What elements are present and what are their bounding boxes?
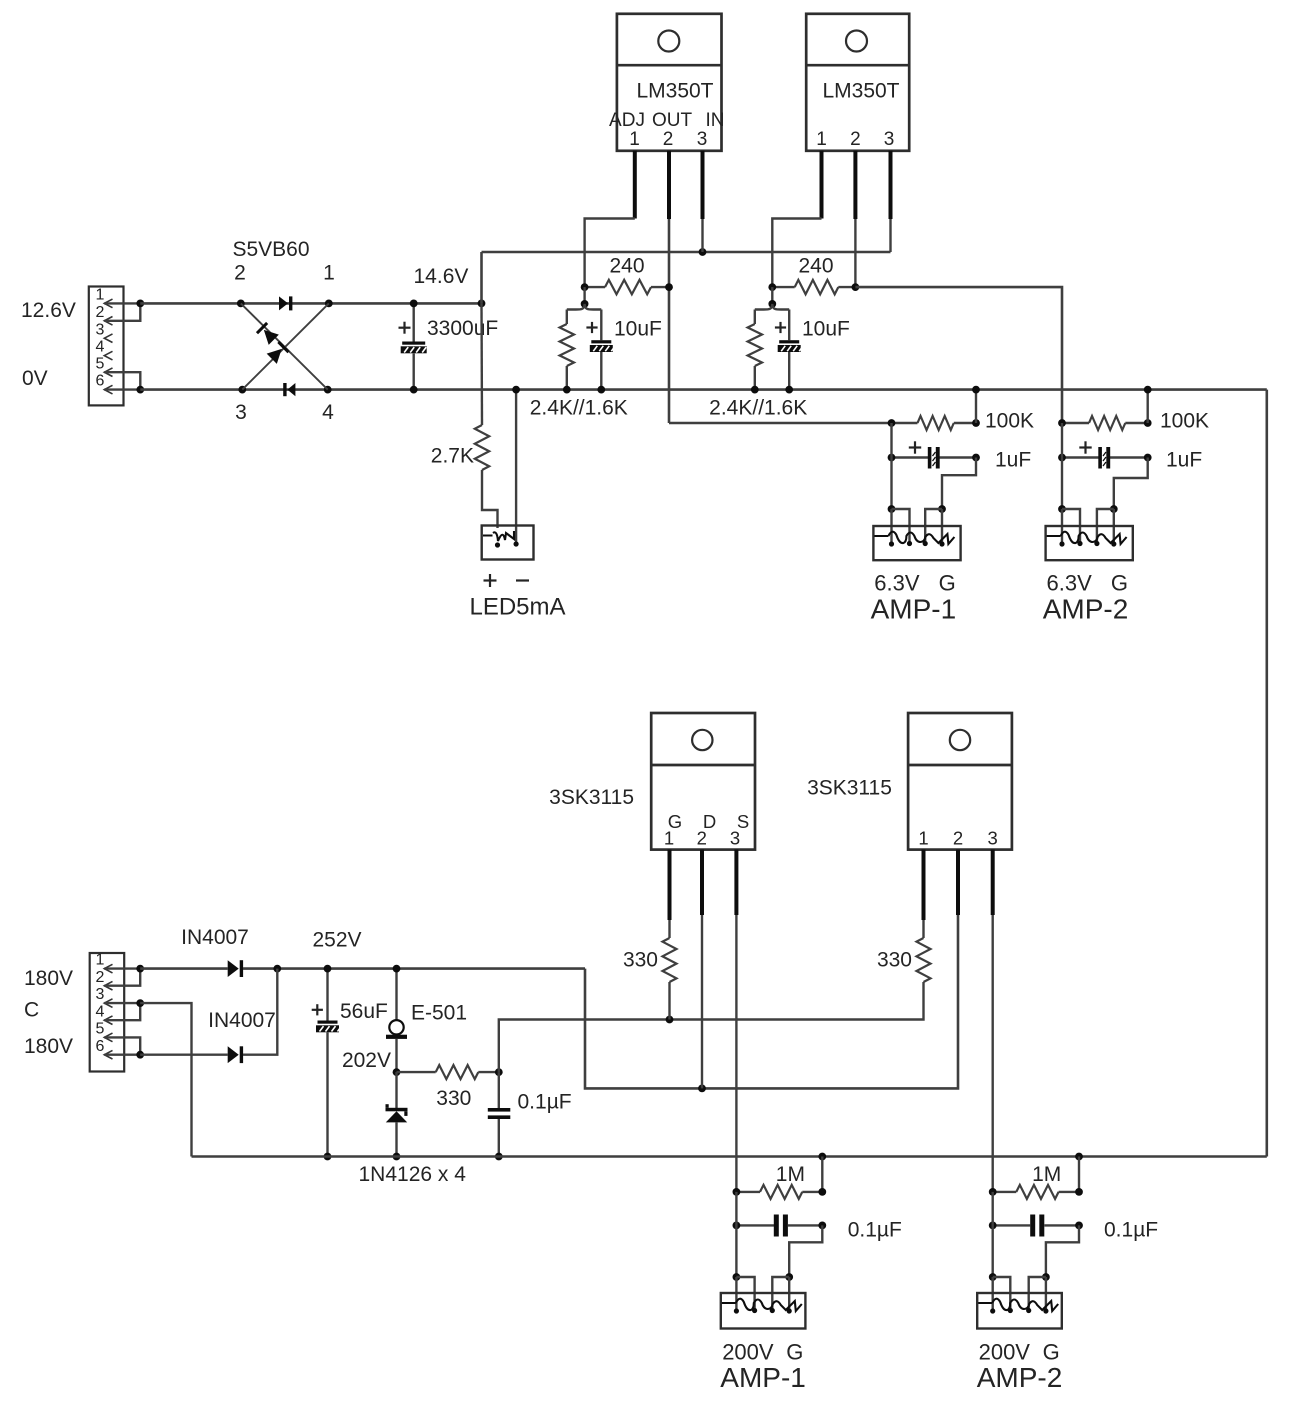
svg-text:3: 3 bbox=[235, 401, 247, 424]
svg-text:IN4007: IN4007 bbox=[181, 926, 249, 949]
wire Q1 drain down bbox=[701, 915, 703, 1088]
node R3 bottom bbox=[563, 386, 571, 394]
svg-text:4: 4 bbox=[96, 339, 105, 356]
svg-text:AMP-1: AMP-1 bbox=[871, 594, 957, 625]
svg-text:G: G bbox=[939, 570, 956, 595]
AMP-2 bias output box bbox=[977, 1293, 1062, 1329]
svg-text:12.6V: 12.6V bbox=[21, 299, 76, 322]
node R5 left bbox=[888, 419, 896, 427]
svg-text:202V: 202V bbox=[342, 1049, 391, 1072]
wire center tap run bbox=[140, 1003, 191, 1156]
resistor R9 330 gate feed bbox=[397, 1065, 499, 1110]
wire pin1 to top rail bbox=[104, 302, 140, 304]
svg-text:LM350T: LM350T bbox=[636, 80, 713, 103]
svg-text:2: 2 bbox=[663, 129, 674, 150]
node AMP-1 6.3V pin bbox=[888, 505, 896, 513]
pin U1-2 OUT bbox=[667, 151, 671, 219]
wire diode2 up to rail bbox=[243, 969, 277, 1055]
svg-text:AMP-2: AMP-2 bbox=[977, 1362, 1063, 1393]
svg-text:1: 1 bbox=[664, 828, 674, 849]
svg-text:E-501: E-501 bbox=[411, 1001, 467, 1024]
bridge node 3 bbox=[235, 386, 247, 424]
svg-text:100K: 100K bbox=[985, 410, 1034, 433]
node R2 left bbox=[768, 283, 776, 291]
wire U1 OUT down bbox=[668, 219, 671, 423]
node C7 right bbox=[818, 1222, 826, 1230]
svg-text:10uF: 10uF bbox=[614, 318, 662, 341]
wire riser 14.6V up to regulator IN feed bbox=[480, 252, 483, 303]
bridge node 4 bbox=[322, 386, 334, 424]
wire AMP-2 G jog bbox=[1114, 458, 1148, 510]
svg-text:3300uF: 3300uF bbox=[427, 317, 498, 340]
node C4 left bbox=[888, 454, 896, 462]
node bracket #2 bbox=[768, 300, 776, 308]
node C2 bottom bbox=[597, 386, 605, 394]
node bracket #1 bbox=[581, 300, 589, 308]
connector CN2 (180V-C-180V transformer input) bbox=[90, 952, 125, 1072]
svg-text:180V: 180V bbox=[24, 967, 73, 990]
pin U1-1 ADJ bbox=[633, 151, 637, 219]
wire U2 IN down to feed bbox=[889, 219, 891, 252]
wire AMP-2 ground tap bbox=[1146, 390, 1148, 423]
node C1 bottom bbox=[410, 386, 418, 394]
resistor R11 330 Q2 gate bbox=[877, 920, 931, 982]
svg-text:3: 3 bbox=[884, 129, 895, 150]
capacitor C1 3300uF bbox=[399, 303, 427, 389]
bridge node 1 bbox=[323, 262, 335, 308]
wire AMP-1 pin entries bbox=[892, 509, 943, 544]
svg-text:OUT: OUT bbox=[652, 110, 693, 131]
svg-text:0.1µF: 0.1µF bbox=[518, 1091, 572, 1114]
resistor R6 2.7K with LED feed bbox=[431, 303, 498, 528]
wire lower ground rail bbox=[192, 1155, 1267, 1158]
svg-text:3: 3 bbox=[988, 828, 998, 849]
svg-text:G: G bbox=[1111, 570, 1128, 595]
svg-text:6.3V: 6.3V bbox=[1047, 570, 1093, 595]
svg-text:10uF: 10uF bbox=[802, 318, 850, 341]
svg-text:2: 2 bbox=[96, 304, 105, 321]
resistor R8 1M AMP-2 bbox=[993, 1163, 1079, 1199]
svg-text:4: 4 bbox=[322, 401, 334, 424]
capacitor C7 0.1uF AMP-1 bbox=[736, 1215, 901, 1242]
node IN pin U1 bbox=[699, 248, 707, 256]
pin U1-3 IN bbox=[701, 151, 705, 219]
bridge diode bottom (4 to 3) bbox=[287, 383, 295, 396]
resistor R1 240 (U1 ADJ-OUT) bbox=[585, 255, 669, 295]
node 202V bbox=[393, 1068, 401, 1076]
wire IN feed line to both LM350T pin3 bbox=[482, 251, 891, 254]
bridge diagonal wire 3-1 bbox=[242, 303, 328, 389]
wire bracket #2 arms bbox=[755, 304, 789, 310]
svg-text:S5VB60: S5VB60 bbox=[232, 238, 309, 261]
node C4 right bbox=[972, 454, 980, 462]
svg-text:1: 1 bbox=[96, 287, 105, 304]
svg-text:LM350T: LM350T bbox=[822, 80, 899, 103]
node C4b left bbox=[1058, 454, 1066, 462]
wire LED cathode return bbox=[515, 390, 517, 544]
node C7 left bbox=[733, 1222, 741, 1230]
resistor R10 330 Q1 gate bbox=[623, 920, 677, 1020]
node C1 top bbox=[410, 300, 418, 308]
wire top rail 12.6V (node to bridge to 14.6V node) bbox=[140, 302, 481, 305]
pin U2-1 ADJ bbox=[820, 151, 824, 219]
wire AMP-1 200V drop bbox=[735, 1192, 737, 1277]
resistor R7 1M AMP-1 bbox=[736, 1163, 822, 1199]
svg-text:1M: 1M bbox=[776, 1163, 805, 1186]
svg-text:3: 3 bbox=[697, 129, 708, 150]
node R7 right bbox=[818, 1188, 826, 1196]
wire bracket stem U2 ADJ bbox=[771, 287, 773, 304]
transistor Q2 3SK3115 package bbox=[908, 713, 1012, 850]
node R8 right bbox=[1075, 1188, 1083, 1196]
node C4b right bbox=[1144, 454, 1152, 462]
svg-text:14.6V: 14.6V bbox=[414, 265, 469, 288]
node R7 left bbox=[733, 1188, 741, 1196]
node R2 right bbox=[852, 283, 860, 291]
wire AMP-1 lower G jog bbox=[789, 1225, 822, 1277]
node pins1-2 bbox=[136, 965, 144, 973]
pin Q2-3 source bbox=[991, 850, 995, 915]
node R4 bottom bbox=[751, 386, 759, 394]
svg-text:330: 330 bbox=[436, 1087, 471, 1110]
resistor R2 240 (U2 ADJ-OUT) bbox=[772, 255, 855, 295]
svg-text:6: 6 bbox=[96, 373, 105, 390]
wire AMP-2 6.3V drop bbox=[1061, 423, 1063, 509]
svg-text:2: 2 bbox=[953, 828, 963, 849]
svg-text:0.1µF: 0.1µF bbox=[1104, 1219, 1158, 1242]
bridge diagonal wire 2-4 bbox=[241, 303, 328, 389]
wire pin5 jog to pin6 node bbox=[104, 372, 140, 389]
node C6 bottom bbox=[495, 1153, 503, 1161]
wire AMP-2 lower G jog bbox=[1046, 1225, 1079, 1277]
wire pin2 jog up bbox=[104, 969, 140, 986]
wire pin2 jog to pin1 node bbox=[104, 303, 140, 320]
wire 180V top to diode bbox=[140, 967, 228, 970]
wire AMP-2 lower ground drop bbox=[1078, 1157, 1080, 1192]
svg-text:G: G bbox=[786, 1339, 803, 1364]
pin Q1-1 gate bbox=[668, 850, 672, 920]
node C5 bottom bbox=[324, 1153, 332, 1161]
wire pin6 out bbox=[104, 1053, 140, 1055]
capacitor C2 10uF bbox=[586, 310, 661, 390]
wire bracket #1 arms bbox=[567, 304, 602, 310]
pin Q1-2 drain bbox=[700, 850, 704, 915]
svg-text:240: 240 bbox=[609, 255, 644, 278]
pin U2-2 OUT bbox=[853, 151, 857, 219]
wire gate bias run bbox=[499, 982, 924, 1072]
svg-text:ADJ: ADJ bbox=[609, 110, 645, 131]
svg-text:1: 1 bbox=[629, 129, 640, 150]
wire 252V drop and run to drains bbox=[585, 850, 958, 1089]
regulator U2 LM350T package bbox=[806, 14, 909, 151]
svg-text:G: G bbox=[1043, 1339, 1060, 1364]
node gate feed bbox=[495, 1068, 503, 1076]
node C8 left bbox=[989, 1222, 997, 1230]
svg-text:2: 2 bbox=[96, 969, 105, 986]
wire AMP-2 lower pin entries bbox=[993, 1277, 1046, 1311]
capacitor C6 0.1uF bbox=[488, 1072, 572, 1156]
node C8 right bbox=[1075, 1222, 1083, 1230]
node pins3-4 bbox=[136, 999, 144, 1007]
node LED return on ground bbox=[512, 386, 520, 394]
wire AMP-2 pin entries bbox=[1062, 509, 1114, 544]
svg-text:200V: 200V bbox=[722, 1339, 774, 1364]
node C3 bottom bbox=[785, 386, 793, 394]
AMP-2 heater output box bbox=[1046, 526, 1133, 560]
svg-text:AMP-2: AMP-2 bbox=[1043, 594, 1129, 625]
transistor Q1 3SK3115 package bbox=[651, 713, 755, 850]
node AMP-1 ground tap lower bbox=[818, 1153, 826, 1161]
node drain Q1 bbox=[698, 1085, 706, 1093]
node R8 left bbox=[989, 1188, 997, 1196]
pin U2-3 IN bbox=[889, 151, 893, 219]
node AMP-2 ground tap bbox=[1144, 386, 1152, 394]
svg-text:2: 2 bbox=[697, 828, 707, 849]
node AMP-1 ground tap bbox=[972, 386, 980, 394]
svg-text:1uF: 1uF bbox=[1166, 449, 1202, 472]
zener stack D7 1N4126 x 4 bbox=[386, 1072, 408, 1156]
node AMP-2 lower G pin bbox=[1042, 1273, 1050, 1281]
svg-text:1N4126 x 4: 1N4126 x 4 bbox=[359, 1163, 467, 1186]
svg-text:180V: 180V bbox=[24, 1035, 73, 1058]
label LED polarity + bbox=[484, 579, 497, 581]
node R1 left bbox=[581, 283, 589, 291]
svg-text:1: 1 bbox=[816, 129, 827, 150]
node AMP-2 G pin bbox=[1110, 505, 1118, 513]
node AMP-2 ground tap lower bbox=[1075, 1153, 1083, 1161]
svg-text:IN: IN bbox=[706, 110, 725, 131]
node AMP-2 6.3V pin bbox=[1058, 505, 1066, 513]
svg-text:2.4K//1.6K: 2.4K//1.6K bbox=[709, 397, 807, 420]
node AMP-1 lower G pin bbox=[785, 1273, 793, 1281]
node pins1-2 junction bbox=[136, 300, 144, 308]
resistor R3 2.4K//1.6K bbox=[560, 310, 574, 390]
wire AMP-2 200V drop bbox=[992, 1192, 994, 1277]
wire HV rail 252V bbox=[243, 967, 585, 970]
wire bracket stem U1 ADJ bbox=[583, 287, 585, 304]
diode D5 IN4007 bbox=[228, 960, 239, 977]
wire U2 OUT down to 240 bbox=[854, 219, 856, 287]
svg-text:AMP-1: AMP-1 bbox=[720, 1362, 806, 1393]
svg-text:4: 4 bbox=[96, 1003, 105, 1020]
svg-text:200V: 200V bbox=[979, 1339, 1031, 1364]
svg-text:1: 1 bbox=[96, 952, 105, 969]
node AMP-1 G pin bbox=[938, 505, 946, 513]
svg-text:2: 2 bbox=[850, 129, 861, 150]
node gate Q1 join bbox=[666, 1016, 674, 1024]
bridge diode on diagonal 4 to 2 bbox=[256, 322, 279, 345]
svg-text:3: 3 bbox=[96, 986, 105, 1003]
svg-text:56uF: 56uF bbox=[340, 1000, 388, 1023]
node R1 right bbox=[665, 283, 673, 291]
wire Q2 source down to AMP-2 bias bbox=[992, 915, 994, 1192]
svg-text:1M: 1M bbox=[1032, 1163, 1061, 1186]
resistor R5 100K AMP-1 bbox=[892, 410, 1035, 433]
node R5b right bbox=[1144, 419, 1152, 427]
LED indicator box LED5mA bbox=[482, 526, 534, 560]
wire pin3 out bbox=[104, 1002, 140, 1004]
wire U1 IN down to feed bbox=[701, 219, 703, 252]
svg-text:3: 3 bbox=[96, 321, 105, 338]
wire Q1 source down to AMP-1 bias bbox=[735, 915, 737, 1192]
node AMP-2 200V pin bbox=[989, 1273, 997, 1281]
pin Q1-3 source bbox=[734, 850, 738, 915]
svg-text:240: 240 bbox=[798, 255, 833, 278]
svg-text:330: 330 bbox=[623, 949, 658, 972]
bridge diode on diagonal 3 to 1 bbox=[267, 341, 290, 364]
wire U2 OUT run to AMP-2 network bbox=[855, 287, 1062, 423]
svg-text:IN4007: IN4007 bbox=[208, 1009, 276, 1032]
svg-text:1: 1 bbox=[918, 828, 928, 849]
svg-text:2.4K//1.6K: 2.4K//1.6K bbox=[530, 397, 628, 420]
wire U1 OUT run to AMP-1 network bbox=[669, 422, 892, 424]
svg-text:330: 330 bbox=[877, 949, 912, 972]
pin Q2-1 gate bbox=[922, 850, 926, 920]
tube V1 E-501 bbox=[386, 969, 467, 1073]
svg-text:3: 3 bbox=[730, 828, 740, 849]
capacitor C5 56uF bbox=[312, 969, 388, 1157]
svg-text:LED5mA: LED5mA bbox=[469, 594, 565, 621]
pin Q2-2 drain bbox=[956, 850, 960, 915]
wire pin4 jog up bbox=[104, 1003, 140, 1020]
wire pin5 jog down bbox=[104, 1037, 140, 1054]
wire pin6 to bottom rail bbox=[104, 388, 140, 390]
capacitor C3 10uF bbox=[775, 310, 850, 390]
svg-text:1: 1 bbox=[323, 262, 335, 285]
AMP-1 bias output box bbox=[721, 1293, 806, 1329]
svg-text:5: 5 bbox=[96, 355, 105, 372]
node diode join bbox=[273, 965, 281, 973]
svg-text:2.7K: 2.7K bbox=[431, 445, 474, 468]
node R5b left bbox=[1058, 419, 1066, 427]
label LED polarity - bbox=[516, 579, 529, 581]
regulator U1 LM350T package bbox=[609, 14, 724, 151]
bridge node 2 bbox=[234, 262, 246, 308]
wire AMP-1 lower ground drop bbox=[821, 1157, 823, 1192]
wire bottom rail 0V / ground (full width) bbox=[140, 388, 1267, 391]
node 14.6V rail junction bbox=[478, 300, 486, 308]
node R5 right bbox=[972, 419, 980, 427]
AMP-1 heater output box bbox=[873, 526, 960, 560]
node D7 bottom bbox=[393, 1153, 401, 1161]
node V1 top bbox=[393, 965, 401, 973]
wire right edge ground drop to lower section bbox=[1266, 390, 1269, 1157]
svg-text:0V: 0V bbox=[22, 367, 48, 390]
svg-text:6.3V: 6.3V bbox=[874, 570, 920, 595]
resistor R5b 100K AMP-2 bbox=[1062, 410, 1209, 433]
node pins5-6 junction bbox=[136, 386, 144, 394]
svg-text:1uF: 1uF bbox=[995, 449, 1031, 472]
wire AMP-1 6.3V drop bbox=[890, 423, 892, 509]
wire AMP-1 G jog bbox=[942, 458, 976, 510]
svg-text:6: 6 bbox=[96, 1038, 105, 1055]
wire U2 ADJ jog down to 240 bbox=[772, 219, 821, 288]
wire U1 ADJ jog down to 240 bbox=[585, 219, 635, 288]
svg-text:252V: 252V bbox=[313, 928, 362, 951]
svg-text:3SK3115: 3SK3115 bbox=[549, 786, 634, 809]
svg-text:0.1µF: 0.1µF bbox=[848, 1219, 902, 1242]
diode D6 IN4007 bbox=[228, 1046, 239, 1063]
connector CN1 (12.6V transformer input) bbox=[89, 287, 124, 406]
bridge diode top (2 to 1) bbox=[279, 296, 288, 310]
capacitor C4 1uF AMP-1 bbox=[892, 441, 1032, 471]
svg-text:3SK3115: 3SK3115 bbox=[807, 777, 892, 800]
svg-text:2: 2 bbox=[234, 262, 246, 285]
svg-text:C: C bbox=[24, 999, 39, 1022]
node AMP-1 200V pin bbox=[733, 1273, 741, 1281]
resistor R4 2.4K//1.6K bbox=[748, 310, 762, 390]
node C5 top bbox=[324, 965, 332, 973]
wire AMP-1 ground tap bbox=[975, 390, 977, 423]
svg-text:5: 5 bbox=[96, 1021, 105, 1038]
node pins5-6 bbox=[136, 1051, 144, 1059]
capacitor C8 0.1uF AMP-2 bbox=[993, 1215, 1158, 1242]
svg-text:100K: 100K bbox=[1160, 410, 1209, 433]
wire pin1 out bbox=[104, 967, 140, 969]
capacitor C4b 1uF AMP-2 bbox=[1062, 441, 1202, 471]
wire AMP-1 lower pin entries bbox=[736, 1277, 789, 1311]
wire 180V bottom to diode bbox=[140, 1053, 228, 1055]
